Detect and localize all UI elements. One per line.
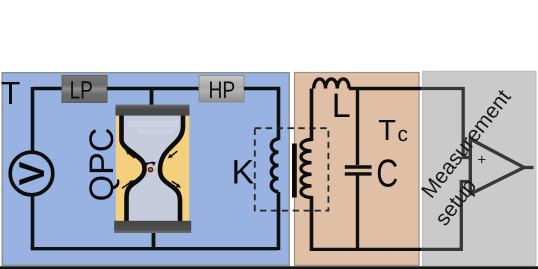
wire L to node xyxy=(349,87,422,90)
wire bottom (blue box) xyxy=(31,247,279,250)
voltmeter V1 xyxy=(10,152,53,195)
wire node down to capacitor xyxy=(356,89,359,166)
wire gray bottom xyxy=(421,182,470,250)
bottom contact bar xyxy=(114,221,191,233)
amplifier xyxy=(470,139,524,194)
svg-text:T: T xyxy=(1,75,21,111)
watermark xyxy=(127,121,179,127)
wire gray top xyxy=(421,89,470,158)
wire primary bottom xyxy=(277,192,281,250)
svg-text:C: C xyxy=(376,152,398,195)
arrow top-left xyxy=(128,152,135,158)
wire bottom (orange box) xyxy=(310,248,422,251)
inductor L xyxy=(314,79,349,89)
wire left vertical lower xyxy=(31,195,35,250)
sample stage box (blue) xyxy=(2,73,289,266)
tank circuit box (orange) xyxy=(295,73,420,266)
svg-text:HP: HP xyxy=(208,77,235,104)
HP filter box xyxy=(199,76,244,103)
scatter arc xyxy=(146,163,155,166)
gate edge left xyxy=(122,111,145,226)
transformer core xyxy=(292,144,297,198)
transformer primary winding xyxy=(271,139,278,192)
gate edge right xyxy=(160,111,183,226)
impurity dot xyxy=(148,167,154,173)
transformer secondary winding xyxy=(301,140,312,198)
gold gates xyxy=(116,110,190,227)
svg-text:LP: LP xyxy=(70,76,93,104)
svg-text:K: K xyxy=(232,154,255,192)
svg-text:c: c xyxy=(398,123,409,146)
arrow bottom-right xyxy=(172,181,179,186)
arrow bottom-left xyxy=(122,182,132,189)
capacitor C xyxy=(345,167,372,174)
svg-text:V: V xyxy=(11,161,52,185)
wire secondary bottom xyxy=(310,196,314,251)
wire top-left xyxy=(33,87,63,91)
svg-text:QPC: QPC xyxy=(83,128,121,202)
label measurement setup xyxy=(408,85,537,230)
bottom rule xyxy=(0,266,538,269)
svg-text:L: L xyxy=(332,87,351,125)
wire HP to transformer xyxy=(244,89,279,141)
svg-text:T: T xyxy=(378,115,396,147)
measurement box (gray) xyxy=(423,71,537,265)
wire amplifier output xyxy=(524,166,534,169)
wire left vertical upper xyxy=(31,87,35,152)
arrow top-right xyxy=(170,151,177,157)
2DEG channel (light) xyxy=(122,111,184,223)
QPC micrograph xyxy=(114,105,191,233)
wire QPC top stub xyxy=(150,87,154,107)
svg-text:+: + xyxy=(477,151,486,168)
LP filter box xyxy=(62,76,107,103)
wire QPC bottom stub xyxy=(152,231,156,249)
wire secondary top xyxy=(310,89,314,142)
top contact bar xyxy=(116,105,190,116)
wire LP to HP xyxy=(107,87,199,91)
coupling dashed box xyxy=(255,128,329,210)
wire capacitor to bottom xyxy=(356,175,359,251)
